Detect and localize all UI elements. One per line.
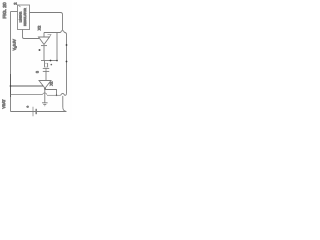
wire lower right rail	[62, 96, 64, 107]
wire diode D2 out to ground	[44, 89, 46, 103]
ground symbol	[42, 102, 48, 104]
battery B1 negative plate	[35, 109, 37, 114]
wire right rail	[66, 35, 68, 94]
wire corner to bottom rail	[63, 107, 67, 111]
wire down from top run	[62, 15, 64, 31]
wire node A horizontal with hop	[44, 32, 61, 34]
svg-text:VBAT: VBAT	[2, 99, 6, 109]
wire mirror rail	[41, 60, 57, 62]
reference numeral 7	[48, 35, 52, 40]
svg-text:3: 3	[36, 71, 40, 73]
node dot on left rail	[10, 85, 12, 87]
node dot mirror corner	[56, 60, 58, 62]
wire regulator output top	[30, 13, 63, 15]
leader line for numeral 2	[18, 5, 21, 8]
diode D1 cathode bar	[41, 45, 47, 47]
capacitor C1 bottom lead	[45, 71, 47, 80]
capacitor C1 top plate	[43, 67, 49, 69]
wire bottom rail	[11, 111, 67, 113]
wire diode D2 output right	[45, 90, 57, 96]
wire diode D1 cathode down	[43, 46, 45, 61]
svg-text:X2: X2	[38, 26, 42, 30]
wire opamp input from left rail	[11, 85, 44, 87]
capacitor C1 bottom plate	[43, 70, 49, 72]
svg-text:+: +	[26, 106, 30, 108]
crystal X1 top lead	[44, 61, 46, 64]
diode D2 triangle	[39, 81, 51, 89]
wire regulator lower output	[23, 30, 40, 39]
svg-text:REGULATOR: REGULATOR	[23, 8, 27, 26]
node dot right rail upper	[66, 44, 68, 46]
wire hop arc over ground wire	[42, 93, 47, 95]
linear regulator U1 box	[18, 5, 30, 30]
wire left rail	[10, 12, 12, 112]
wire diode D1 anode stub	[43, 33, 45, 38]
node dot floating	[39, 49, 41, 51]
node dot junction	[56, 95, 58, 97]
label 4 blob	[51, 64, 53, 66]
wire mirror rail up to node A	[56, 33, 58, 61]
wire corner into right rail	[65, 33, 67, 35]
wire hop arc at right rail bottom	[61, 93, 65, 95]
node dot diode D2 output	[44, 88, 46, 90]
wire hop arc over vertical	[61, 31, 65, 33]
capacitor C1 middle stub	[45, 68, 47, 71]
svg-text:FIG. 20: FIG. 20	[2, 2, 8, 19]
node dot on mirror rail	[50, 60, 52, 62]
battery B1 positive plate	[32, 107, 34, 116]
wire after hop	[47, 94, 61, 96]
wire feedback from left rail with hop	[11, 94, 43, 96]
diode D1 triangle	[39, 37, 50, 45]
node dot right rail lower	[66, 61, 68, 63]
wire Vref rail into regulator input	[11, 11, 18, 13]
crystal X1 body box	[45, 63, 48, 67]
